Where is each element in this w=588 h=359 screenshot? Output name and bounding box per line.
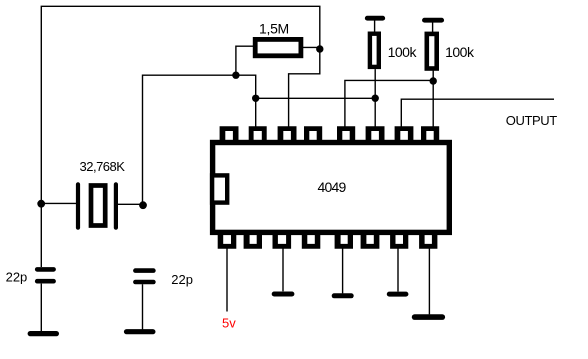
- wire: crystal-right up, across to IC top pin 2: [143, 75, 256, 204]
- IC U1 bottom pin 1: [218, 232, 237, 249]
- wire: pin2 node across to R2/pin6 node: [256, 97, 376, 99]
- capacitor C2 22p top plate: [135, 268, 153, 273]
- svg-text:100k: 100k: [445, 44, 475, 60]
- wire: crystal left lead: [41, 202, 76, 204]
- resistor R3 100k body: [427, 34, 437, 69]
- svg-text:4049: 4049: [318, 179, 347, 195]
- IC U1 top pin 8: [421, 126, 439, 143]
- wire: OUTPUT from IC top pin 7: [401, 99, 554, 129]
- IC U1 bottom pin 8: [419, 232, 437, 249]
- ground under C2: [127, 329, 153, 334]
- wire: IC bottom pin 8 to ground: [428, 248, 430, 314]
- wire: IC bottom pin 7 to ground: [397, 248, 399, 291]
- capacitor C1 22p bottom plate: [37, 279, 53, 284]
- junction node: pin2 wire: [252, 95, 259, 102]
- junction node: 1.5M right lead: [316, 45, 323, 52]
- wire: R2 100k top lead to VCC bar: [374, 18, 376, 34]
- svg-text:5v: 5v: [222, 316, 236, 331]
- wire: C2 bottom plate to ground: [142, 284, 144, 329]
- ground under IC bottom pin 5: [334, 293, 351, 298]
- IC U1 bottom pin 7: [390, 232, 408, 249]
- junction node: crystal left / C1: [37, 200, 45, 208]
- wire: IC bottom pin 3 to ground: [282, 248, 284, 291]
- capacitor C2 22p bottom plate: [135, 280, 153, 285]
- wire: IC bottom pin 1 to 5v: [226, 248, 228, 311]
- wire: R2 100k bottom lead down to IC top pin 6: [374, 69, 376, 129]
- ground under C1: [30, 331, 56, 336]
- IC U1 4049 body: [213, 143, 450, 233]
- svg-text:22p: 22p: [171, 272, 193, 287]
- IC U1 top pin 2: [249, 126, 267, 143]
- wire: IC bottom pin 5 to ground: [342, 248, 344, 293]
- IC U1 pin-1 notch: [212, 175, 227, 202]
- resistor R2 100k body: [370, 34, 379, 67]
- IC U1 bottom pin 3: [273, 232, 292, 249]
- wire: crystal right lead: [118, 203, 143, 205]
- IC U1 bottom pin 6: [361, 232, 380, 249]
- capacitor C1 22p top plate: [37, 267, 53, 272]
- svg-text:32,768K: 32,768K: [80, 159, 126, 174]
- IC U1 top pin 5: [337, 126, 355, 143]
- crystal X1 left plate: [76, 184, 80, 227]
- wire: R3 100k top lead to VCC bar: [432, 20, 434, 34]
- IC U1 bottom pin 4: [302, 232, 321, 249]
- VCC bar above R2: [367, 16, 382, 21]
- svg-text:1,5M: 1,5M: [259, 21, 289, 37]
- wire: IC top pin 5 up and right to R3 lead: [345, 80, 433, 129]
- svg-text:22p: 22p: [6, 269, 28, 284]
- resistor R1 1,5M body: [255, 39, 301, 55]
- svg-text:100k: 100k: [388, 44, 418, 60]
- IC U1 top pin 3: [278, 126, 297, 143]
- IC U1 top pin 7: [395, 126, 414, 143]
- ground under IC bottom pin 3: [274, 292, 292, 297]
- ground under IC bottom pin 8: [415, 314, 443, 320]
- IC U1 top pin 4: [304, 126, 322, 143]
- IC U1 top pin 6: [366, 126, 385, 143]
- wire: 1.5M right lead: [303, 46, 320, 48]
- ground under IC bottom pin 7: [389, 292, 406, 297]
- crystal X1 body: [91, 186, 105, 226]
- wire: C1 bottom plate to ground: [40, 284, 42, 332]
- svg-text:OUTPUT: OUTPUT: [506, 113, 558, 128]
- wire: crystal-left up, across top, down to 1.5M right end: [41, 6, 320, 267]
- junction node: 1.5M left lead: [232, 72, 239, 79]
- junction node: pin6 / R2 lead: [372, 95, 379, 102]
- junction node: crystal right / C2: [139, 201, 147, 209]
- VCC bar above R3: [425, 18, 442, 23]
- wire: 1.5M left lead down to node: [236, 46, 254, 75]
- crystal X1 right plate: [114, 184, 118, 227]
- IC U1 top pin 1: [220, 126, 239, 143]
- IC U1 bottom pin 2: [244, 232, 262, 249]
- junction node: R3 lead / pin5 wire: [430, 77, 437, 84]
- wire: 1.5M right end down and left to IC top pin 3: [289, 49, 320, 129]
- IC U1 bottom pin 5: [335, 232, 353, 249]
- wire: R3 100k bottom lead down to IC top pin 8: [432, 70, 434, 129]
